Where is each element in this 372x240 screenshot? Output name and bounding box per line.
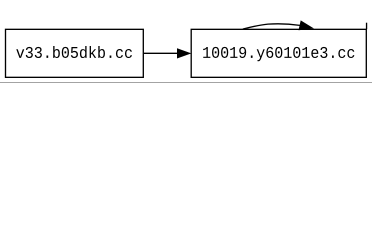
node 10019.y60101e3.cc label [203, 47, 354, 61]
node 10019.y60101e3.cc box [191, 29, 366, 77]
self-loop corner stub at NE corner [366, 23, 368, 30]
self-loop 10019.y60101e3.cc -> 10019.y60101e3.cc arc [243, 24, 300, 29]
self-loop arrowhead [299, 21, 313, 30]
node v33.b05dkb.cc label [16, 46, 132, 58]
bottom page border line [0, 82, 372, 83]
node v33.b05dkb.cc box [6, 29, 144, 77]
edge v33.b05dkb.cc -> 10019.y60101e3.cc arrowhead [177, 49, 190, 58]
edge v33.b05dkb.cc -> 10019.y60101e3.cc wire [144, 52, 178, 54]
